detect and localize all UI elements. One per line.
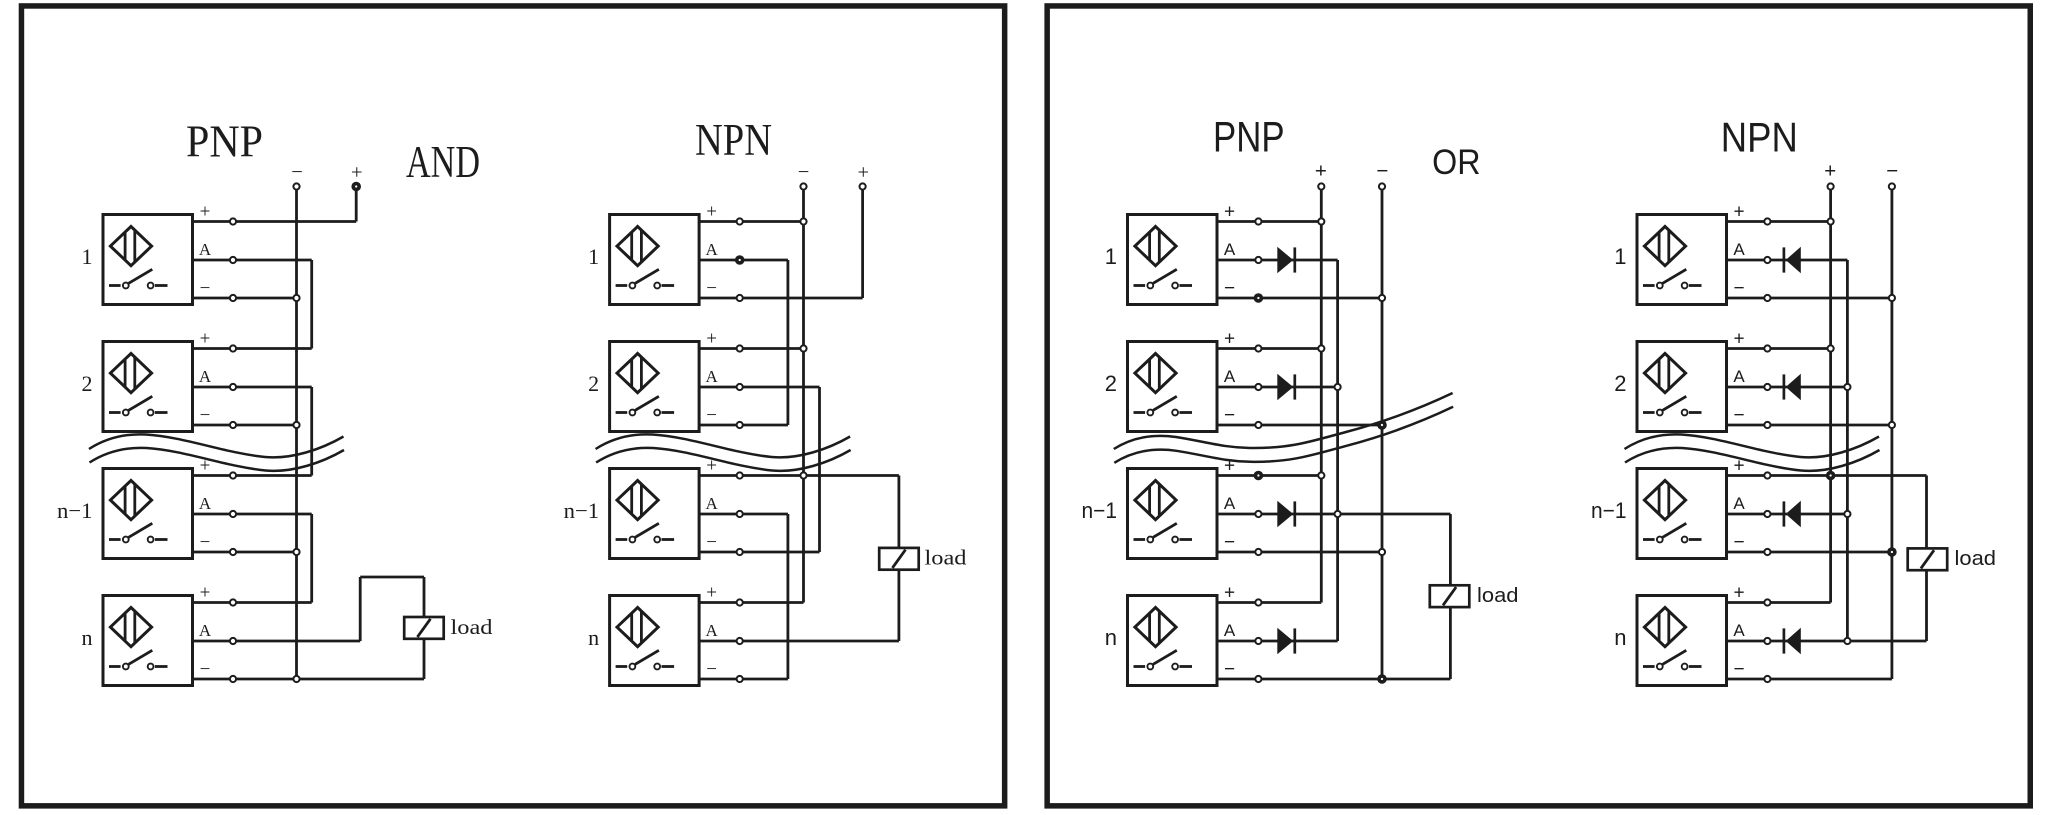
terminal A sensor 2 (NPN OR) [1764,384,1770,390]
svg-text:n−1: n−1 [564,498,600,523]
wire An-1 row to load (PNP OR) [1217,513,1450,516]
terminal - sensor 3 (NPN OR) [1764,549,1770,555]
svg-text:OR: OR [1432,143,1480,182]
svg-text:n: n [1614,625,1626,650]
svg-text:+: + [200,582,211,603]
svg-text:A: A [1733,494,1745,513]
svg-text:+: + [1315,160,1327,183]
wire +n-1 row to load (NPN AND) [699,474,899,477]
wire load feed lower (NPN OR) [1925,570,1928,641]
supply terminal - (PNP AND) [293,183,299,189]
svg-text:−: − [1224,278,1235,299]
junction - bus y=552 (PNP OR) [1379,549,1385,555]
terminal - sensor 4 (PNP AND) [230,676,236,682]
svg-text:A: A [705,240,718,259]
junction - bus -2 (PNP OR) [1377,420,1387,430]
break wave upper (PNP OR) [1114,393,1453,449]
wire An row to load (NPN OR) [1727,640,1927,643]
svg-text:−: − [798,162,810,184]
sensor 2 (NPN AND) [610,342,700,432]
svg-text:+: + [1824,160,1836,183]
wire - bus (NPN OR) [1891,187,1894,680]
svg-text:A: A [199,621,212,640]
svg-text:+: + [706,582,717,603]
terminal + sensor 1 (NPN OR) [1764,218,1770,224]
diode D3 (NPN OR) [1784,501,1801,527]
wire -n row (PNP AND) [193,678,425,681]
terminal A sensor 1 (NPN OR) [1764,257,1770,263]
terminal A sensor 2 (NPN AND) [737,384,743,390]
svg-text:n: n [1105,625,1117,650]
wire -2 row (NPN OR) [1727,424,1892,427]
svg-text:+: + [200,328,211,349]
junction - bus y=348.5 (NPN AND) [800,345,806,351]
svg-text:A: A [1733,621,1745,640]
wire series link A1 to -2 (NPN AND) [787,260,790,425]
sensor 3 (PNP AND) [103,469,193,559]
junction + bus y=221.5 (PNP OR) [1318,218,1324,224]
wire - bus (PNP OR) [1381,187,1384,680]
wire +n row (PNP OR) [1217,601,1321,604]
wire series link A1 to +2 (PNP AND) [310,260,313,349]
svg-text:1: 1 [588,244,599,269]
svg-text:load: load [925,546,968,570]
svg-text:A: A [1224,240,1236,259]
junction terminal +n-1 (PNP OR) [1254,471,1264,481]
junction A bus y=387 (NPN OR) [1844,384,1850,390]
terminal + sensor 4 (NPN OR) [1764,599,1770,605]
diode D2 (PNP OR) [1277,374,1295,400]
break wave lower (PNP AND) [90,448,345,471]
terminal A sensor 4 (NPN OR) [1764,638,1770,644]
sensor 1 (NPN AND) [610,215,700,305]
wire +1 row (PNP OR) [1217,220,1321,223]
svg-text:−: − [706,659,717,680]
wire +n row (NPN OR) [1727,601,1831,604]
wire series link An-1 to +n (PNP AND) [310,514,313,603]
svg-text:A: A [199,367,212,386]
wire load top wire (PNP AND) [360,576,424,579]
break wave lower (PNP OR) [1114,407,1453,463]
svg-text:−: − [200,659,211,680]
terminal + sensor 4 (PNP AND) [230,599,236,605]
svg-text:2: 2 [82,371,93,396]
diode D1 (PNP OR) [1277,247,1295,273]
svg-text:+: + [706,201,717,222]
terminal - sensor 3 (PNP OR) [1255,549,1261,555]
wire +n row (PNP AND) [193,601,312,604]
svg-text:load: load [451,615,494,639]
sensor 3 (PNP OR) [1128,469,1218,559]
diode D4 (NPN OR) [1784,628,1801,654]
junction + bus y=348.5 (PNP OR) [1318,345,1324,351]
sensor 4 (PNP AND) [103,596,193,686]
terminal + sensor 1 (PNP OR) [1255,218,1261,224]
wire A1 row (NPN AND) [699,259,788,262]
terminal - sensor 4 (NPN OR) [1764,676,1770,682]
wire -2 row (NPN AND) [699,424,788,427]
svg-text:1: 1 [1614,244,1626,269]
diode D1 (NPN OR) [1784,247,1801,273]
svg-text:AND: AND [406,137,480,187]
svg-text:A: A [705,367,718,386]
terminal - sensor 2 (NPN OR) [1764,422,1770,428]
terminal + sensor 1 (NPN AND) [737,218,743,224]
supply terminal + (PNP AND) [351,182,361,192]
svg-text:A: A [1224,621,1236,640]
svg-text:n: n [588,625,599,650]
terminal A sensor 3 (NPN AND) [737,511,743,517]
break wave lower (NPN AND) [596,448,851,471]
svg-text:2: 2 [1614,371,1626,396]
junction - bus y=552 (PNP AND) [293,549,299,555]
supply terminal + (PNP OR) [1318,183,1324,189]
terminal - sensor 1 (NPN AND) [737,295,743,301]
junction + bus y=221.5 (NPN OR) [1828,218,1834,224]
svg-text:+: + [200,201,211,222]
junction terminal -1 (PNP OR) [1254,293,1264,303]
junction - bus y=475.5 (NPN AND) [800,472,806,478]
svg-text:+: + [706,328,717,349]
wire A1 row (NPN OR) [1727,259,1848,262]
svg-text:−: − [200,405,211,426]
relay load (NPN AND) [879,548,919,570]
wire An-1 row (PNP AND) [193,513,312,516]
wire -n row (NPN OR) [1727,678,1892,681]
svg-text:−: − [1733,278,1744,299]
wire +1 row (PNP AND) [193,220,357,223]
wire A2 row (NPN OR) [1727,386,1848,389]
svg-text:+: + [1733,328,1744,349]
svg-text:2: 2 [588,371,599,396]
svg-text:−: − [1733,532,1744,553]
svg-text:−: − [1224,532,1235,553]
wire series link An-1 to -n (NPN AND) [787,514,790,679]
junction - bus y=425 (NPN OR) [1889,422,1895,428]
break wave upper (PNP AND) [89,434,344,457]
terminal A sensor 2 (PNP AND) [230,384,236,390]
wire load feed upper (PNP AND) [423,577,426,617]
wire +1 row (NPN AND) [699,220,803,223]
terminal - sensor 1 (PNP AND) [230,295,236,301]
junction - bus y=298 (PNP AND) [293,295,299,301]
junction - bus y=298 (NPN OR) [1889,295,1895,301]
terminal A sensor 4 (PNP AND) [230,638,236,644]
wire - bus (PNP AND) [295,187,298,679]
junction - bus -n (PNP OR) [1377,674,1387,684]
svg-text:A: A [1733,240,1745,259]
svg-text:A: A [199,240,212,259]
sensor 1 (PNP OR) [1128,215,1218,305]
wire -1 row (PNP OR) [1217,297,1382,300]
wire load feed upper (NPN AND) [898,476,901,548]
svg-text:+: + [351,162,363,184]
junction + bus y=475.5 (PNP OR) [1318,472,1324,478]
wire +1 row (NPN OR) [1727,220,1831,223]
svg-text:A: A [705,494,718,513]
svg-text:−: − [706,405,717,426]
wire - bus (NPN AND) [802,187,805,603]
terminal A sensor 4 (PNP OR) [1255,638,1261,644]
terminal - sensor 4 (NPN AND) [737,676,743,682]
svg-text:A: A [705,621,718,640]
wire +2 row (PNP OR) [1217,347,1321,350]
diode D3 (PNP OR) [1277,501,1295,527]
wire + bus (NPN OR) [1829,187,1832,603]
wire -n row to load (PNP OR) [1217,678,1450,681]
svg-text:A: A [1224,494,1236,513]
svg-text:+: + [1224,328,1235,349]
wire +n-1 row (PNP AND) [193,474,312,477]
wire A2 row (PNP AND) [193,386,312,389]
svg-text:1: 1 [82,244,93,269]
svg-text:A: A [1733,367,1745,386]
svg-text:2: 2 [1105,371,1117,396]
wire series link A2 to -n-1 (NPN AND) [818,387,821,552]
panel frame right (OR) [1047,6,2030,806]
sensor 4 (NPN OR) [1637,596,1727,686]
junction - bus y=425 (PNP AND) [293,422,299,428]
sensor 2 (PNP OR) [1128,342,1218,432]
wire load riser left (PNP AND) [359,577,362,641]
svg-text:−: − [200,278,211,299]
junction A bus y=514 (NPN OR) [1844,511,1850,517]
wire A2 row (PNP OR) [1217,386,1338,389]
svg-text:−: − [1733,659,1744,680]
wire -n-1 row (NPN AND) [699,551,819,554]
relay load (PNP OR) [1430,585,1470,607]
wire +2 row (NPN AND) [699,347,803,350]
svg-text:load: load [1477,584,1519,607]
supply terminal - (NPN OR) [1889,183,1895,189]
wire +2 row (PNP AND) [193,347,312,350]
sensor 2 (PNP AND) [103,342,193,432]
svg-text:n−1: n−1 [1591,498,1627,523]
svg-text:−: − [706,532,717,553]
diode D4 (PNP OR) [1277,628,1295,654]
wire -2 row (PNP OR) [1217,424,1382,427]
junction - bus y=221.5 (NPN AND) [800,218,806,224]
svg-text:−: − [1224,659,1235,680]
junction - bus y=298 (PNP OR) [1379,295,1385,301]
wire An-1 row (NPN OR) [1727,513,1848,516]
wire load feed lower (PNP AND) [423,639,426,679]
wire -n row (NPN AND) [699,678,788,681]
svg-text:A: A [199,494,212,513]
terminal + sensor 3 (NPN AND) [737,472,743,478]
wire load feed upper (NPN OR) [1925,476,1928,549]
wire An row to load (NPN AND) [699,640,899,643]
wire load feed upper (PNP OR) [1449,514,1452,585]
terminal - sensor 4 (PNP OR) [1255,676,1261,682]
junction + bus +n-1 (NPN OR) [1826,471,1836,481]
wire -1 row (NPN AND) [699,297,863,300]
terminal + sensor 2 (NPN OR) [1764,345,1770,351]
svg-text:n−1: n−1 [57,498,93,523]
terminal + sensor 2 (PNP AND) [230,345,236,351]
sensor 4 (NPN AND) [610,596,700,686]
svg-text:−: − [1224,405,1235,426]
relay load (NPN OR) [1908,548,1948,570]
supply terminal + (NPN AND) [860,183,866,189]
terminal A sensor 4 (NPN AND) [737,638,743,644]
wire load feed lower (PNP OR) [1449,607,1452,679]
sensor 1 (PNP AND) [103,215,193,305]
supply terminal - (NPN AND) [800,183,806,189]
wire A output bus (NPN OR) [1846,260,1849,641]
terminal + sensor 3 (NPN OR) [1764,472,1770,478]
svg-text:+: + [858,162,870,184]
relay load (PNP AND) [404,617,444,639]
wire + supply drop (PNP AND) [355,187,358,222]
supply terminal + (NPN OR) [1828,183,1834,189]
wire -n-1 row (NPN OR) [1727,551,1892,554]
svg-text:n: n [82,625,93,650]
diode D2 (NPN OR) [1784,374,1801,400]
svg-text:+: + [1733,582,1744,603]
svg-text:NPN: NPN [695,115,772,165]
terminal A sensor 1 (NPN AND) [737,257,743,263]
terminal - sensor 1 (PNP OR) [1255,295,1261,301]
wire A1 row (PNP AND) [193,259,312,262]
svg-text:A: A [1224,367,1236,386]
junction A bus y=514 (PNP OR) [1335,511,1341,517]
sensor 4 (PNP OR) [1128,596,1218,686]
wire An row (PNP OR) [1217,640,1338,643]
terminal A sensor 1 (PNP AND) [230,257,236,263]
wire An row (PNP AND) [193,640,361,643]
wire A2 row (NPN AND) [699,386,819,389]
svg-text:−: − [1376,160,1388,183]
svg-text:NPN: NPN [1721,113,1798,160]
sensor 2 (NPN OR) [1637,342,1727,432]
terminal - sensor 3 (PNP AND) [230,549,236,555]
terminal + sensor 1 (PNP AND) [230,218,236,224]
terminal - sensor 2 (NPN AND) [737,422,743,428]
terminal - sensor 3 (NPN AND) [737,549,743,555]
svg-text:+: + [1224,201,1235,222]
wire An-1 row (NPN AND) [699,513,788,516]
terminal A sensor 3 (PNP OR) [1255,511,1261,517]
svg-text:+: + [1224,582,1235,603]
panel frame left (AND) [21,6,1004,806]
terminal + sensor 3 (PNP AND) [230,472,236,478]
terminal + sensor 4 (PNP OR) [1255,599,1261,605]
svg-text:−: − [200,532,211,553]
terminal + sensor 3 (PNP OR) [1255,472,1261,478]
sensor 3 (NPN OR) [1637,469,1727,559]
terminal + sensor 2 (NPN AND) [737,345,743,351]
junction - bus -n-1 (NPN OR) [1887,547,1897,557]
wire load feed lower (NPN AND) [898,569,901,641]
wire A output bus (PNP OR) [1336,260,1339,641]
terminal A sensor 3 (PNP AND) [230,511,236,517]
svg-text:n−1: n−1 [1082,498,1118,523]
wire +2 row (NPN OR) [1727,347,1831,350]
wire +n row (NPN AND) [699,601,803,604]
junction A bus y=641 (NPN OR) [1844,638,1850,644]
wire +n-1 row to load (NPN OR) [1727,474,1927,477]
wire series link A2 to +n-1 (PNP AND) [310,387,313,476]
svg-text:PNP: PNP [1213,114,1285,162]
wire -n-1 row (PNP AND) [193,551,297,554]
break wave lower (NPN OR) [1625,448,1880,471]
wire A1 row (PNP OR) [1217,259,1338,262]
break wave upper (NPN OR) [1625,434,1880,457]
wire -n-1 row (PNP OR) [1217,551,1382,554]
terminal A sensor 1 (PNP OR) [1255,257,1261,263]
svg-text:PNP: PNP [186,116,263,167]
wire -1 row (NPN OR) [1727,297,1892,300]
terminal A sensor 2 (PNP OR) [1255,384,1261,390]
svg-text:−: − [291,162,303,184]
terminal + sensor 4 (NPN AND) [737,599,743,605]
wire + bus (PNP OR) [1320,187,1323,603]
supply terminal - (PNP OR) [1379,183,1385,189]
terminal - sensor 2 (PNP AND) [230,422,236,428]
svg-text:−: − [1886,160,1898,183]
junction + bus y=348.5 (NPN OR) [1828,345,1834,351]
wire -1 row (PNP AND) [193,297,297,300]
junction A bus y=387 (PNP OR) [1335,384,1341,390]
wire + supply drop (NPN AND) [861,187,864,298]
break wave upper (NPN AND) [596,434,851,457]
junction terminal A1 (NPN AND) [735,255,745,265]
terminal - sensor 2 (PNP OR) [1255,422,1261,428]
terminal + sensor 2 (PNP OR) [1255,345,1261,351]
svg-text:−: − [706,278,717,299]
svg-text:load: load [1955,547,1997,570]
sensor 1 (NPN OR) [1637,215,1727,305]
svg-text:1: 1 [1105,244,1117,269]
terminal - sensor 1 (NPN OR) [1764,295,1770,301]
terminal A sensor 3 (NPN OR) [1764,511,1770,517]
wire +n-1 row (PNP OR) [1217,474,1321,477]
junction - bus y=679 (PNP AND) [293,676,299,682]
svg-text:−: − [1733,405,1744,426]
wire -2 row (PNP AND) [193,424,297,427]
svg-text:+: + [1733,201,1744,222]
sensor 3 (NPN AND) [610,469,700,559]
